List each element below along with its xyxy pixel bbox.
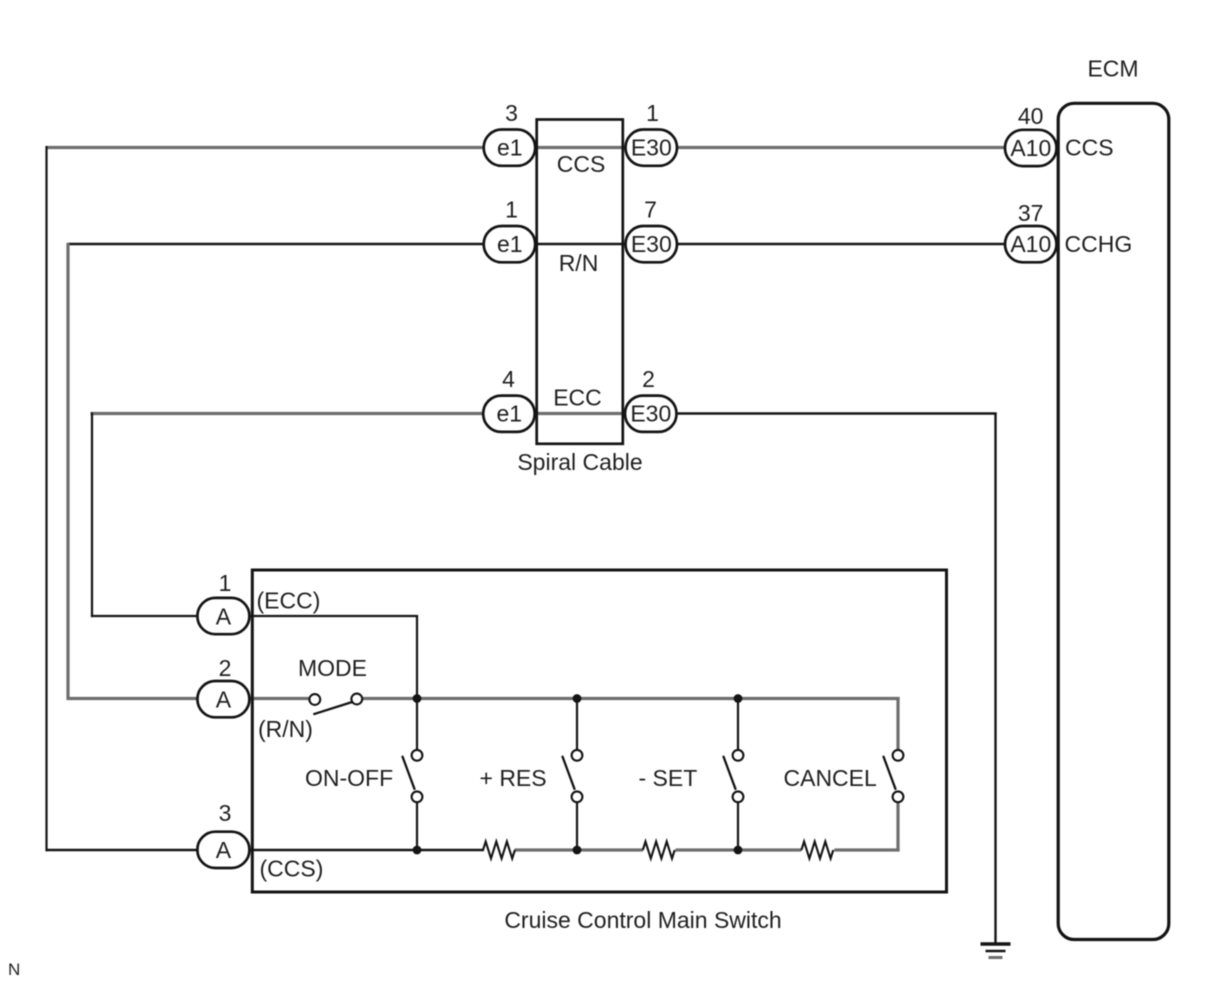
connector A10 pin 40 xyxy=(1005,130,1057,166)
wire ON-OFF branch stub upper xyxy=(416,699,418,751)
switch CANCEL contact top xyxy=(893,750,904,761)
svg-text:CCS: CCS xyxy=(557,151,606,177)
ECM box xyxy=(1058,103,1169,939)
resistor R2 (+RES) xyxy=(643,842,675,859)
resistor R1 (ON-OFF) xyxy=(483,842,515,859)
junction dot bus/ECC/ON-OFF xyxy=(413,694,422,703)
svg-text:4: 4 xyxy=(502,366,515,392)
connector E30 pin 2 xyxy=(625,396,677,432)
wire CCS horizontal (e1 pin3 to ECM A10 pin40) xyxy=(46,146,1059,149)
switch +RES contact top xyxy=(572,750,583,761)
wire R/N bottom horizontal to A pin2 xyxy=(67,697,310,700)
switch +RES contact bottom xyxy=(572,791,583,802)
svg-text:3: 3 xyxy=(505,100,518,126)
connector e1 pin 3 xyxy=(484,130,536,166)
svg-text:R/N: R/N xyxy=(559,250,599,276)
switch +RES blade xyxy=(562,756,575,790)
switch -SET contact top xyxy=(733,750,744,761)
svg-text:A10: A10 xyxy=(1010,231,1051,257)
switch ON-OFF contact bottom xyxy=(412,791,423,802)
connector e1 pin 1 xyxy=(484,226,536,262)
svg-text:MODE: MODE xyxy=(298,655,367,681)
svg-text:(ECC): (ECC) xyxy=(257,588,321,614)
svg-text:2: 2 xyxy=(642,366,655,392)
svg-text:E30: E30 xyxy=(631,135,672,161)
svg-text:(R/N): (R/N) xyxy=(258,716,313,742)
svg-text:1: 1 xyxy=(646,100,659,126)
wire CCS bottom horizontal to A pin3 xyxy=(46,849,485,852)
junction dot bottom/ON-OFF xyxy=(413,846,422,855)
svg-text:3: 3 xyxy=(219,800,232,826)
svg-text:(CCS): (CCS) xyxy=(260,856,324,882)
switch -SET contact bottom xyxy=(733,791,744,802)
connector A10 pin 37 xyxy=(1005,226,1057,262)
svg-text:E30: E30 xyxy=(630,401,671,427)
switch ON-OFF blade xyxy=(402,756,415,790)
svg-text:2: 2 xyxy=(219,655,232,681)
svg-text:N: N xyxy=(8,960,20,979)
wire +RES branch stub lower xyxy=(576,802,578,850)
wire CANCEL bend vertical lower xyxy=(896,802,899,852)
connector E30 pin 7 xyxy=(626,226,678,262)
svg-text:37: 37 xyxy=(1018,200,1044,226)
connector E30 pin 1 xyxy=(626,130,678,166)
svg-text:e1: e1 xyxy=(497,135,523,161)
svg-text:A: A xyxy=(216,837,232,863)
svg-text:E30: E30 xyxy=(631,231,672,257)
wire bottom bus gray segment 2 xyxy=(676,848,802,851)
switch ON-OFF contact top xyxy=(412,750,423,761)
wire MODE bus right segment (right MODE contact to CANCEL bend) xyxy=(362,697,900,700)
junction dot bus/+RES xyxy=(573,694,582,703)
svg-text:CCS: CCS xyxy=(1065,135,1114,161)
wire R/N horizontal (e1 pin1 to ECM A10 pin37) xyxy=(67,243,1058,245)
wire ground vertical xyxy=(994,413,996,945)
svg-text:CANCEL: CANCEL xyxy=(784,765,878,791)
Spiral Cable box xyxy=(537,120,623,444)
connector e1 pin 4 xyxy=(483,396,535,432)
connector A pin 1 xyxy=(197,598,249,634)
svg-text:A10: A10 xyxy=(1010,135,1051,161)
wire ECC horizontal black (E30 pin2 to ground drop) xyxy=(651,412,997,414)
Cruise Control Main Switch box xyxy=(252,570,946,892)
svg-text:ECM: ECM xyxy=(1087,56,1138,82)
wire ECC drop to MODE bus junction xyxy=(416,616,418,699)
wire R/N left vertical xyxy=(66,243,69,700)
svg-text:- SET: - SET xyxy=(639,765,698,791)
wire +RES branch stub upper xyxy=(576,699,578,751)
svg-text:Spiral Cable: Spiral Cable xyxy=(517,449,642,475)
switch CANCEL contact bottom xyxy=(893,791,904,802)
svg-text:e1: e1 xyxy=(497,401,523,427)
wire -SET branch stub upper xyxy=(737,699,739,751)
wire ECC horizontal gray (left of E30 pin2) xyxy=(91,412,652,415)
svg-text:ON-OFF: ON-OFF xyxy=(305,765,393,791)
switch MODE contact left xyxy=(309,694,320,705)
svg-text:7: 7 xyxy=(644,197,657,223)
connector A pin 2 xyxy=(197,681,249,717)
switch MODE blade xyxy=(313,702,352,714)
wire -SET branch stub lower xyxy=(737,802,739,850)
wire ECC left vertical xyxy=(91,413,93,618)
resistor R3 (-SET) xyxy=(801,842,833,859)
svg-text:A: A xyxy=(216,603,232,629)
svg-text:+ RES: + RES xyxy=(480,765,547,791)
junction dot bottom/+RES xyxy=(573,846,582,855)
svg-text:1: 1 xyxy=(219,570,232,596)
switch MODE contact right xyxy=(351,694,362,705)
svg-text:Cruise Control Main Switch: Cruise Control Main Switch xyxy=(504,907,781,933)
svg-text:1: 1 xyxy=(505,197,518,223)
wire bottom bus gray segment 1 xyxy=(515,848,644,851)
wire ON-OFF branch stub lower xyxy=(416,802,418,850)
connector A pin 3 xyxy=(197,832,249,868)
wire CANCEL bend vertical upper xyxy=(896,697,899,750)
junction dot bottom/-SET xyxy=(734,846,743,855)
switch -SET blade xyxy=(723,756,736,790)
svg-text:40: 40 xyxy=(1018,103,1044,129)
svg-text:e1: e1 xyxy=(497,231,523,257)
svg-text:A: A xyxy=(216,686,232,712)
ground symbol xyxy=(981,944,1011,958)
switch CANCEL blade xyxy=(883,756,896,790)
junction dot bus/-SET xyxy=(734,694,743,703)
wire bottom bus gray segment 3 xyxy=(834,848,899,851)
svg-text:ECC: ECC xyxy=(553,385,602,411)
wire ECC bottom horizontal to A pin1 xyxy=(91,615,418,617)
wire CCS left vertical xyxy=(45,146,47,851)
svg-text:CCHG: CCHG xyxy=(1065,231,1133,257)
